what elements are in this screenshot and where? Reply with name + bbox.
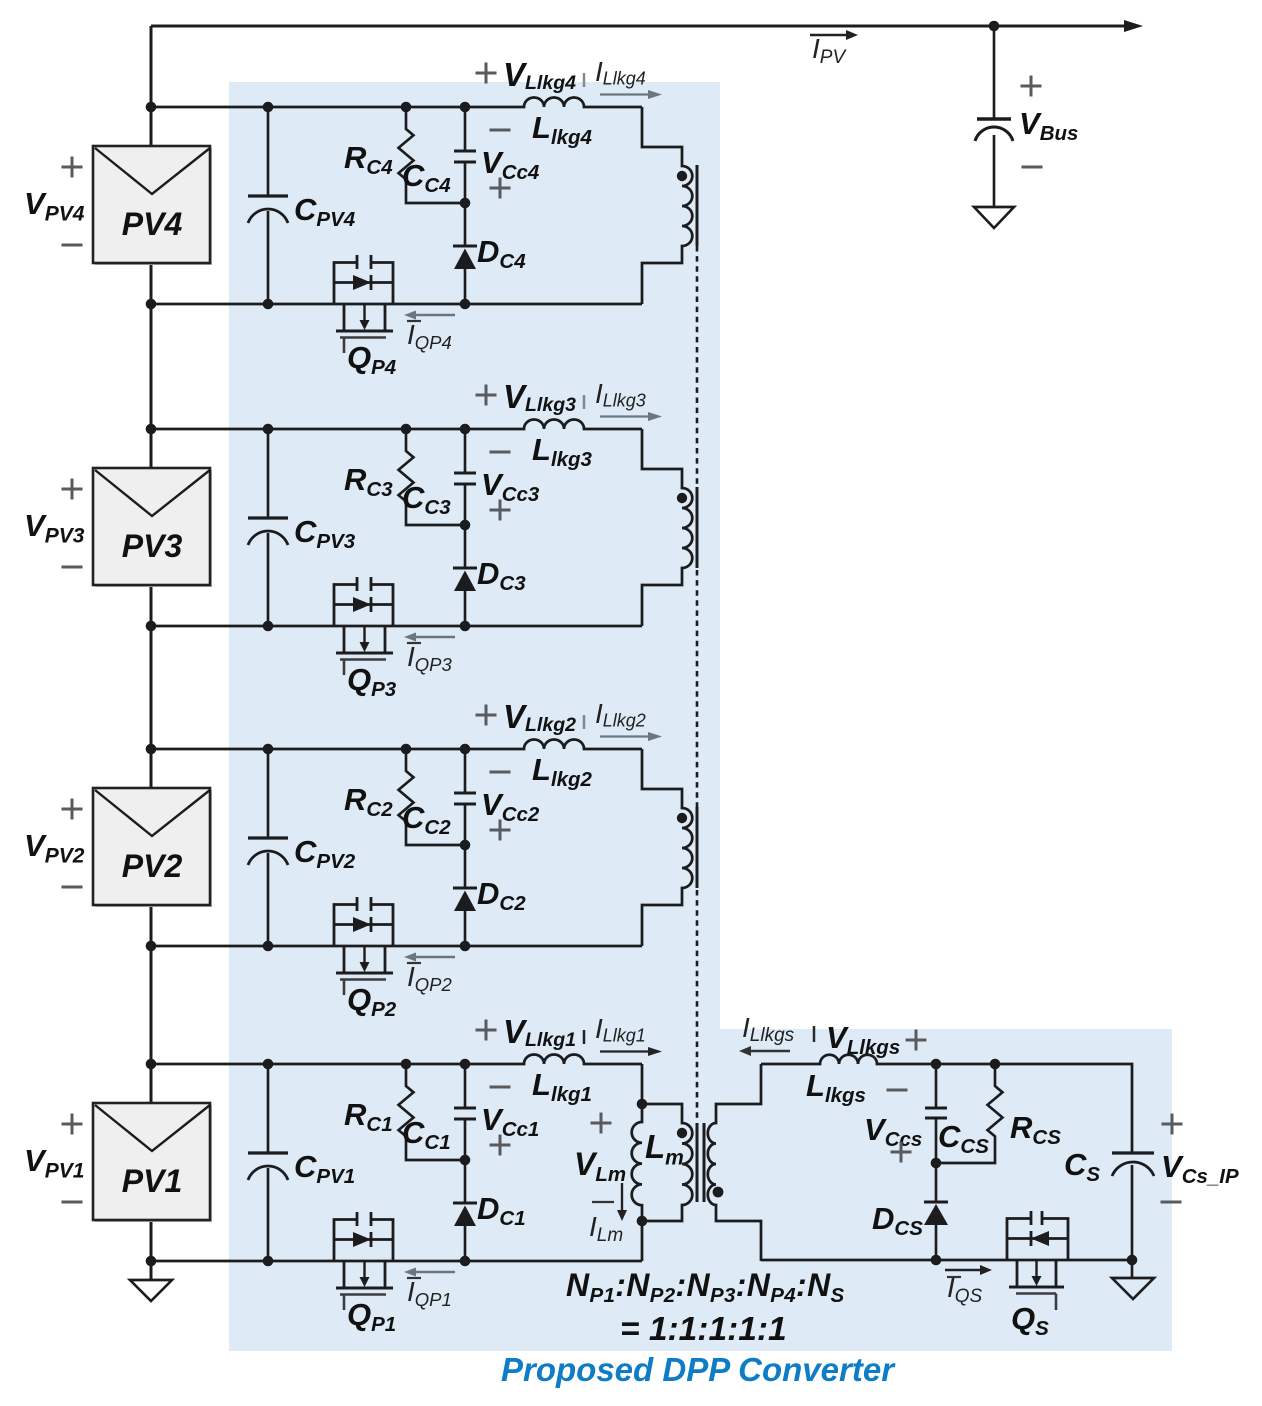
svg-text:PV4: PV4 xyxy=(122,206,183,242)
svg-text:VPV4: VPV4 xyxy=(24,186,85,226)
svg-text:VPV3: VPV3 xyxy=(24,508,85,548)
svg-text:VCs_IP: VCs_IP xyxy=(1161,1149,1239,1188)
svg-text:ILlkgs: ILlkgs xyxy=(742,1012,795,1046)
svg-text:PV2: PV2 xyxy=(122,848,183,884)
svg-text:IPV: IPV xyxy=(812,33,847,68)
svg-text:VLlkg4: VLlkg4 xyxy=(503,56,576,94)
svg-text:PV1: PV1 xyxy=(122,1163,182,1199)
svg-text:VBus: VBus xyxy=(1019,106,1078,145)
svg-text:ILlkg4: ILlkg4 xyxy=(595,56,646,89)
svg-text:PV3: PV3 xyxy=(122,528,183,564)
svg-text:Proposed DPP Converter: Proposed DPP Converter xyxy=(501,1351,896,1388)
svg-text:= 1:1:1:1:1: = 1:1:1:1:1 xyxy=(620,1311,787,1348)
svg-text:VPV2: VPV2 xyxy=(24,828,85,868)
svg-text:VLlkgs: VLlkgs xyxy=(826,1020,900,1059)
svg-text:VPV1: VPV1 xyxy=(24,1143,84,1183)
